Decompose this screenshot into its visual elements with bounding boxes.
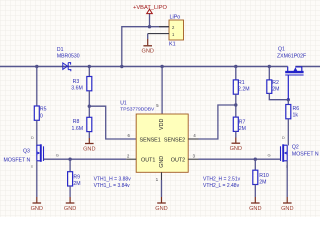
svg-text:GND: GND [281,206,293,212]
wire rail to R1 [235,67,237,80]
svg-text:GND: GND [83,146,95,152]
transistor Q1 (P-MOSFET ZXM61P02F) [285,67,303,100]
resistor R5 [34,106,39,120]
ground under R10 [249,203,261,212]
wire Q2 gate row from pin3 net [199,158,281,160]
resistor R6 [286,105,291,119]
svg-text:2M: 2M [239,126,246,132]
svg-text:GND: GND [230,146,242,152]
svg-text:ZXM61P02F: ZXM61P02F [277,53,306,59]
wire R1 to R7 [235,94,237,117]
wire power arrow to junction [149,13,151,26]
svg-text:R5: R5 [40,107,47,113]
wire junction to R9 [69,159,71,172]
wire Q3 gate row (pin2/OUT1 net) [44,158,126,160]
svg-text:MBR0530: MBR0530 [57,53,80,59]
resistor R9 [68,172,73,186]
svg-text:Q1: Q1 [278,46,285,52]
svg-text:Q3: Q3 [23,149,30,155]
wire rail to R2 [268,67,270,80]
svg-text:MOSFET N: MOSFET N [4,157,31,163]
ground under R9 [64,203,76,212]
wire R3 to R8 [88,91,90,118]
svg-text:D: D [282,136,285,140]
svg-text:1.6M: 1.6M [72,126,84,132]
svg-text:GND: GND [64,206,76,212]
svg-text:VTH2_H = 2.51v: VTH2_H = 2.51v [203,177,241,183]
wire divider to SENSE1 [89,106,136,139]
svg-text:VTH1_L = 3.84v: VTH1_L = 3.84v [94,183,131,189]
resistor R10 [253,170,258,184]
svg-text:R2: R2 [272,80,279,86]
wire rail to R3 [88,67,90,77]
ground under U1 [155,203,167,212]
ground under R7 [230,138,242,153]
svg-text:VDD: VDD [159,119,165,130]
wire R10 to gnd [254,185,256,198]
svg-text:GND: GND [141,48,153,54]
wire R8 to gnd [88,132,90,138]
svg-text:U1: U1 [120,101,127,107]
svg-text:G: G [268,153,271,158]
power symbol +VBAT_LIPO [147,9,153,13]
wire U1 gnd pin down [161,180,163,197]
pin 3 OUT2 [188,158,198,160]
svg-text:R6: R6 [293,106,300,112]
wire SENSE2 to R1/R7 divider [199,105,236,139]
ground under K1 [141,39,153,54]
svg-text:G: G [56,153,59,158]
svg-text:R8: R8 [73,119,80,125]
connector K1 (LiPo) [169,20,184,40]
ground under R8 [83,138,95,152]
svg-text:OUT2: OUT2 [171,157,185,163]
node battery junction [148,25,151,28]
node R1-R7 divider junction [234,103,237,106]
svg-text:D: D [31,136,34,140]
svg-text:1k: 1k [293,113,299,119]
svg-text:SENSE2: SENSE2 [164,137,185,143]
node rail R5 junction [35,65,38,68]
wire Q2 source to gnd [286,161,288,197]
node rail-battery junction [120,65,123,68]
wire main rail left segment [0,66,288,68]
svg-text:2M: 2M [272,86,279,92]
pin 1 of K1 [148,33,169,35]
svg-text:SENSE1: SENSE1 [140,137,161,143]
pin 2 OUT1 [126,158,136,160]
wire R6 to Q2 drain [287,119,289,146]
node R10 junction [254,158,257,161]
resistor R2 [267,80,272,94]
node rail R1 junction [234,65,237,68]
wire R2 to gate node [269,93,288,99]
node rail U1 VDD junction [160,65,163,68]
svg-text:R9: R9 [73,174,80,180]
node rail R3 junction [88,65,91,68]
svg-text:3.6M: 3.6M [71,86,83,92]
node R3-R8 divider junction [88,105,91,108]
svg-text:0: 0 [40,114,43,120]
wire R7 to gnd [235,131,237,137]
svg-text:K1: K1 [169,41,176,47]
resistor R3 [87,77,92,91]
node rail R2 junction [268,65,271,68]
svg-text:2M: 2M [73,181,80,187]
diode D1 MBR0530 [63,63,71,72]
svg-text:GND: GND [159,156,165,168]
wire R9 to gnd [69,186,71,197]
pin 2 of K1 [159,26,169,28]
ground under Q3 [31,203,43,212]
wire junction to R10 [254,159,256,170]
svg-text:s: s [31,165,33,169]
node R9 junction [68,158,71,161]
svg-text:R10: R10 [259,173,269,179]
wire Q3 source to gnd [36,161,38,197]
svg-text:GND: GND [31,206,43,212]
svg-text:+VBAT_LIPO: +VBAT_LIPO [133,5,167,11]
ground under Q2 [281,203,293,212]
svg-text:VTH1_H = 3.88v: VTH1_H = 3.88v [94,177,132,183]
svg-text:GND: GND [249,206,261,212]
wire battery feed: K1 pin2 to rail [122,27,169,67]
svg-text:2M: 2M [259,179,266,185]
svg-text:LiPo: LiPo [170,15,181,21]
svg-text:2.2M: 2.2M [238,87,250,93]
svg-text:TPS3779DDBV: TPS3779DDBV [120,107,155,113]
wire R5 to Q3 drain [36,120,38,145]
wire rail to R5 [36,67,38,107]
node Q1 gate junction [287,98,290,101]
resistor R1 [233,80,238,94]
pin 1 GND [161,172,163,180]
wire K1 pin1 down to gnd [147,34,149,39]
resistor R8 [87,117,92,131]
wire gate node to R6 [287,100,289,105]
svg-text:GND: GND [155,206,167,212]
svg-text:R3: R3 [73,79,80,85]
wire main rail right segment [295,66,320,68]
svg-text:OUT1: OUT1 [141,158,155,164]
svg-text:D1: D1 [57,47,64,53]
svg-text:VTH2_L = 2.48v: VTH2_L = 2.48v [203,183,240,189]
transistor Q3 (MOSFET N, mirrored, gate right) [37,144,44,162]
resistor R7 [233,117,238,131]
transistor Q2 (MOSFET N) [281,144,288,162]
wire rail to U1 VDD [161,67,163,115]
svg-text:R1: R1 [238,80,245,86]
op-amp U1 TPS3779DDBV body [136,114,188,172]
svg-text:Q2: Q2 [292,144,299,150]
pin 4 SENSE2 [188,138,198,140]
svg-text:R7: R7 [239,120,246,126]
svg-text:MOSFET N: MOSFET N [292,151,319,157]
